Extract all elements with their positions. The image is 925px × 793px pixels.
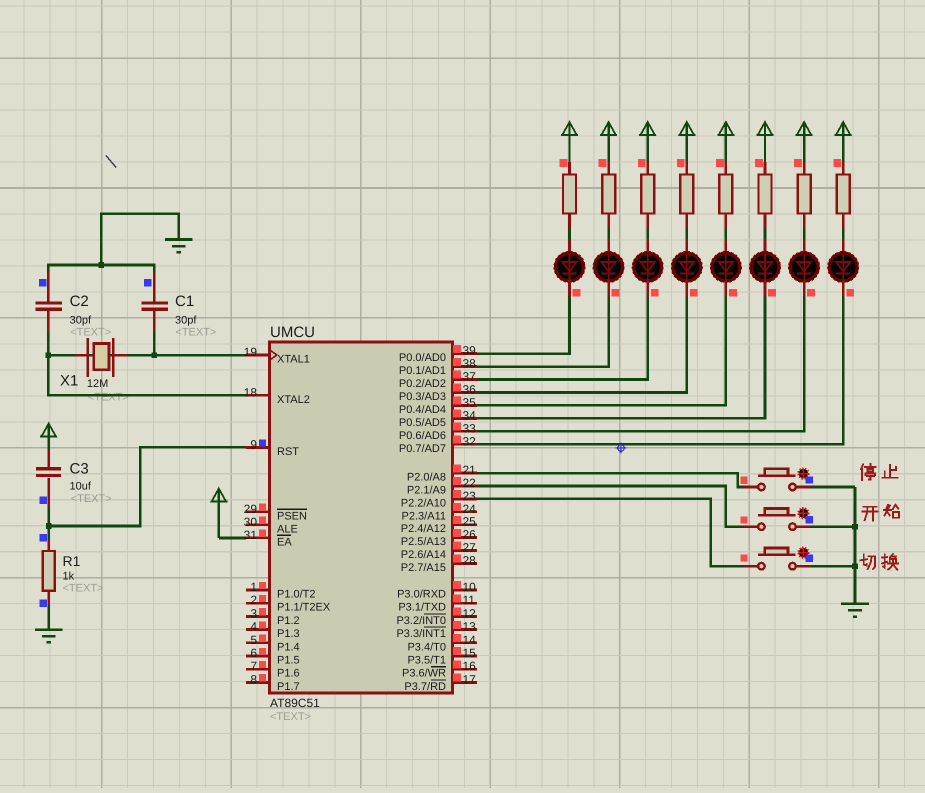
svg-text:X1: X1: [60, 373, 78, 390]
wire P2.1 to button 2: [477, 486, 744, 527]
LED D7: [789, 239, 820, 297]
svg-text:P0.2/AD2: P0.2/AD2: [399, 378, 446, 390]
LED D3 state square: [651, 289, 659, 297]
svg-text:30pf: 30pf: [175, 315, 197, 327]
svg-text:16: 16: [463, 659, 477, 673]
U1 pin 37 P0.2/AD2: [399, 370, 477, 391]
svg-text:5: 5: [250, 633, 257, 647]
wire button1 to GND bus: [811, 486, 856, 489]
push button (stop): [744, 468, 811, 490]
power symbol VCC (LED 3): [639, 122, 656, 162]
svg-text:AT89C51: AT89C51: [270, 696, 320, 710]
origin marker: [616, 443, 627, 454]
wire top node to ground: [101, 214, 179, 265]
crystal X1: [76, 338, 128, 377]
U1 pin 1 P1.0/T2: [246, 580, 316, 601]
svg-text:P3.7/RD: P3.7/RD: [404, 681, 446, 693]
resistor R LED6 state square: [755, 159, 763, 167]
svg-text:26: 26: [463, 528, 477, 542]
svg-text:P3.0/RXD: P3.0/RXD: [397, 589, 446, 601]
U1 pin 17 P3.7/RD: [404, 672, 477, 693]
svg-text:EA: EA: [277, 536, 292, 548]
wire R to LED 8: [842, 229, 845, 241]
svg-text:21: 21: [463, 463, 477, 477]
svg-text:7: 7: [250, 659, 257, 673]
LED D1 state square: [573, 289, 581, 297]
LED D5 state square: [729, 289, 737, 297]
svg-text:34: 34: [463, 408, 477, 422]
button state squares: [740, 477, 747, 484]
label toggle (qie huan): [860, 554, 875, 569]
wire EA: [219, 537, 246, 540]
resistor R LED8 state square: [833, 159, 841, 167]
U1 pin 26 P2.5/A13: [401, 528, 477, 549]
U1 pin 11 P3.1/TXD: [398, 593, 477, 614]
svg-text:<TEXT>: <TEXT>: [88, 392, 129, 404]
wire LED 2 to P0.1: [477, 297, 609, 367]
LED D6 state square: [768, 289, 776, 297]
svg-text:P2.6/A14: P2.6/A14: [401, 549, 446, 561]
svg-text:RST: RST: [277, 446, 299, 458]
svg-text:12M: 12M: [87, 378, 108, 390]
U1 pin 24 P2.3/A11: [402, 502, 477, 523]
resistor R LED2 state square: [599, 159, 607, 167]
wire P2.2 to button 3: [477, 499, 744, 566]
resistor R LED1 state square: [560, 159, 568, 167]
svg-text:PSEN: PSEN: [277, 510, 307, 522]
LED D8 state square: [846, 289, 854, 297]
svg-text:28: 28: [463, 553, 477, 567]
R1 upper state square: [39, 534, 46, 541]
LED D8: [828, 239, 859, 297]
svg-text:35: 35: [463, 395, 477, 409]
U1 pin 12 P3.2/INT0: [396, 606, 477, 627]
U1 pin 36 P0.3/AD3: [399, 382, 477, 403]
button state squares: [740, 516, 747, 523]
LED D2 state square: [612, 289, 620, 297]
ground (top left): [165, 240, 193, 253]
power symbol VCC (LED 5): [717, 122, 734, 162]
wire R to LED 5: [725, 229, 728, 241]
R1 lower state square: [39, 600, 46, 607]
svg-text:33: 33: [463, 421, 477, 435]
resistor R LED3: [641, 162, 654, 229]
svg-text:P0.1/AD1: P0.1/AD1: [399, 365, 446, 377]
junction bus-button2: [852, 524, 858, 530]
U1 pin 7 P1.6: [246, 659, 300, 680]
button state squares: [740, 554, 747, 561]
svg-text:XTAL1: XTAL1: [277, 354, 310, 366]
svg-text:P1.6: P1.6: [277, 668, 300, 680]
svg-text:P3.5/T1: P3.5/T1: [407, 655, 446, 667]
C2 state square: [39, 279, 46, 286]
U1 pin 5 P1.4: [246, 633, 300, 654]
U1 pin 15 P3.5/T1: [407, 646, 477, 667]
svg-text:36: 36: [463, 382, 477, 396]
svg-text:R1: R1: [63, 553, 81, 569]
svg-text:P2.5/A13: P2.5/A13: [401, 536, 446, 548]
power symbol VCC (EA): [210, 489, 227, 539]
svg-text:29: 29: [244, 502, 258, 516]
U1 pin 8 P1.7: [246, 672, 300, 693]
power symbol VCC (LED 7): [796, 122, 813, 162]
svg-text:P2.7/A15: P2.7/A15: [401, 562, 446, 574]
svg-text:P1.2: P1.2: [277, 615, 300, 627]
svg-text:P1.5: P1.5: [277, 655, 300, 667]
svg-text:25: 25: [463, 515, 477, 529]
svg-text:P0.3/AD3: P0.3/AD3: [399, 391, 446, 403]
LED D2: [593, 239, 624, 297]
svg-text:19: 19: [244, 345, 258, 359]
U1 pin 27 P2.6/A14: [401, 541, 477, 562]
U1 pin 10 P3.0/RXD: [397, 580, 477, 601]
U1 pin 9 RST: [246, 438, 299, 459]
U1 pin 19 clock chevron: [271, 351, 277, 360]
svg-text:32: 32: [463, 434, 477, 448]
wire button2 to GND bus: [811, 525, 856, 528]
U1 pin 29 PSEN: [244, 502, 307, 523]
svg-text:C2: C2: [70, 293, 89, 310]
svg-text:1k: 1k: [63, 571, 75, 583]
svg-text:<TEXT>: <TEXT>: [71, 493, 112, 505]
svg-text:P0.5/AD5: P0.5/AD5: [399, 417, 446, 429]
LED D1: [554, 239, 585, 297]
resistor R LED7 state square: [794, 159, 802, 167]
U1 pin 22 P2.1/A9: [407, 476, 477, 497]
U1 pin 6 P1.5: [246, 646, 300, 667]
svg-text:1: 1: [250, 580, 257, 594]
svg-text:P3.3/INT1: P3.3/INT1: [396, 628, 446, 640]
wire R to LED 7: [803, 229, 806, 241]
wire R to LED 2: [607, 229, 610, 241]
svg-text:P1.3: P1.3: [277, 628, 300, 640]
U1 pin 3 P1.2: [246, 606, 300, 627]
svg-text:30pf: 30pf: [70, 315, 92, 327]
svg-text:15: 15: [463, 646, 477, 660]
U1 pin 18 XTAL2: [244, 385, 310, 406]
junction C1-crystal: [151, 352, 157, 358]
capacitor C1: [142, 264, 168, 357]
svg-text:27: 27: [463, 541, 477, 555]
svg-text:P3.1/TXD: P3.1/TXD: [398, 602, 446, 614]
power symbol VCC (LED 6): [757, 122, 774, 162]
svg-text:9: 9: [250, 438, 257, 452]
svg-text:14: 14: [463, 633, 477, 647]
wire LED 5 to P0.4: [477, 297, 726, 406]
svg-text:39: 39: [463, 344, 477, 358]
wire XTAL2 to C2 branch: [48, 355, 246, 395]
svg-text:P0.0/AD0: P0.0/AD0: [399, 352, 446, 364]
svg-text:P1.7: P1.7: [277, 681, 300, 693]
svg-text:30: 30: [244, 515, 258, 529]
svg-text:C1: C1: [175, 293, 194, 310]
U1 pin 34 P0.5/AD5: [399, 408, 477, 429]
LED D4: [671, 239, 702, 297]
LED D5: [710, 239, 741, 297]
svg-text:P3.6/WR: P3.6/WR: [402, 668, 446, 680]
wire C2 top to C1 top: [48, 264, 154, 267]
wire R to LED 6: [764, 229, 767, 241]
junction node top: [98, 262, 104, 268]
U1 pin 32 P0.7/AD7: [399, 434, 477, 455]
power symbol VCC (LED 2): [600, 122, 617, 162]
resistor R LED5: [719, 162, 732, 229]
resistor R LED5 state square: [716, 159, 724, 167]
svg-text:<TEXT>: <TEXT>: [70, 327, 111, 339]
wire button3 to GND bus: [811, 565, 856, 568]
svg-text:10: 10: [463, 580, 477, 594]
svg-text:P2.2/A10: P2.2/A10: [401, 497, 446, 509]
resistor R LED4 state square: [677, 159, 685, 167]
label stop (ting zhi): [861, 464, 876, 480]
junction RST: [46, 523, 52, 529]
C3 state square: [39, 497, 46, 504]
svg-text:P2.4/A12: P2.4/A12: [401, 523, 446, 535]
U1 pin 19 XTAL1: [244, 345, 310, 366]
svg-text:11: 11: [463, 593, 476, 607]
U1 pin 30 ALE: [244, 515, 298, 536]
svg-text:4: 4: [250, 620, 257, 634]
wire R to LED 1: [568, 229, 571, 241]
junction C2-crystal: [46, 352, 52, 358]
U1 pin 2 P1.1/T2EX: [246, 593, 331, 614]
svg-text:8: 8: [250, 672, 257, 686]
U1 pin 35 P0.4/AD4: [399, 395, 477, 416]
wire LED 7 to P0.6: [477, 297, 804, 432]
svg-text:18: 18: [244, 385, 258, 399]
svg-text:P1.0/T2: P1.0/T2: [277, 589, 316, 601]
svg-text:17: 17: [463, 672, 477, 686]
svg-text:<TEXT>: <TEXT>: [175, 327, 216, 339]
resistor R LED6: [759, 162, 772, 229]
resistor R1: [43, 540, 55, 606]
power symbol VCC (LED 8): [835, 122, 852, 162]
U1 pin 39 P0.0/AD0: [399, 344, 477, 365]
resistor R LED8: [837, 162, 850, 229]
svg-text:31: 31: [244, 528, 258, 542]
U1 pin 23 P2.2/A10: [401, 489, 477, 510]
svg-text:3: 3: [250, 606, 257, 620]
U1 pin 31 EA: [244, 528, 293, 549]
resistor R LED1: [563, 162, 576, 229]
svg-text:<TEXT>: <TEXT>: [63, 583, 104, 595]
svg-text:ALE: ALE: [277, 523, 298, 535]
C1 state square: [144, 279, 151, 286]
stray cursor mark: [106, 155, 116, 167]
wire LED 3 to P0.2: [477, 297, 648, 380]
U1 pin 38 P0.1/AD1: [399, 357, 477, 378]
wire R to LED 4: [685, 229, 688, 241]
wire RST net: [49, 447, 246, 526]
GND bus wire: [854, 487, 857, 605]
U1 pin 33 P0.6/AD6: [399, 421, 477, 442]
wire LED 4 to P0.3: [477, 297, 687, 393]
LED D6: [750, 239, 781, 297]
svg-text:22: 22: [463, 476, 477, 490]
svg-text:6: 6: [250, 646, 257, 660]
LED D3: [632, 239, 663, 297]
U1 pin 28 P2.7/A15: [401, 553, 477, 574]
LED D4 state square: [690, 289, 698, 297]
junction bus-button3: [852, 563, 858, 569]
U1 pin 21 P2.0/A8: [407, 463, 477, 484]
wire P2.0 to button 1: [477, 473, 744, 487]
U1 pin 14 P3.4/T0: [407, 633, 477, 654]
wire LED 8 to P0.7: [477, 297, 843, 445]
svg-text:P2.1/A9: P2.1/A9: [407, 485, 446, 497]
svg-text:13: 13: [463, 620, 477, 634]
resistor R LED7: [798, 162, 811, 229]
svg-text:24: 24: [463, 502, 477, 516]
svg-text:P0.6/AD6: P0.6/AD6: [399, 430, 446, 442]
svg-text:P1.4: P1.4: [277, 641, 300, 653]
svg-text:23: 23: [463, 489, 477, 503]
svg-text:P2.3/A11: P2.3/A11: [402, 510, 446, 522]
ground (buttons): [841, 604, 869, 617]
resistor R LED3 state square: [638, 159, 646, 167]
svg-text:C3: C3: [70, 461, 89, 478]
push button (toggle): [744, 547, 811, 569]
wire R to LED 3: [646, 229, 649, 241]
label start (kai shi): [862, 507, 877, 521]
svg-text:<TEXT>: <TEXT>: [270, 711, 311, 723]
push button (start): [744, 508, 811, 530]
power symbol VCC (LED 4): [678, 122, 695, 162]
svg-text:XTAL2: XTAL2: [277, 394, 310, 406]
U1 pin 25 P2.4/A12: [401, 515, 477, 536]
svg-text:P0.4/AD4: P0.4/AD4: [399, 404, 446, 416]
svg-text:10uf: 10uf: [70, 481, 92, 493]
svg-text:P0.7/AD7: P0.7/AD7: [399, 443, 446, 455]
U1 pin 4 P1.3: [246, 620, 300, 641]
svg-text:P3.4/T0: P3.4/T0: [407, 641, 446, 653]
ground (R1): [35, 630, 63, 643]
svg-text:2: 2: [250, 593, 257, 607]
LED D7 state square: [807, 289, 815, 297]
wire LED 1 to P0.0: [477, 297, 570, 354]
U1 pin 16 P3.6/WR: [402, 659, 477, 680]
power symbol VCC (LED 1): [561, 122, 578, 162]
power symbol VCC (reset): [40, 424, 57, 456]
svg-text:38: 38: [463, 357, 477, 371]
resistor R LED2: [602, 162, 615, 229]
MCU U1 AT89C51 body: [270, 342, 453, 693]
resistor R LED4: [680, 162, 693, 229]
svg-text:37: 37: [463, 370, 477, 384]
capacitor C2: [36, 264, 62, 357]
wire crystal row: [48, 354, 246, 357]
svg-text:P3.2/INT0: P3.2/INT0: [396, 615, 446, 627]
wire junction to R1: [47, 526, 50, 551]
svg-text:12: 12: [463, 606, 477, 620]
svg-text:P1.1/T2EX: P1.1/T2EX: [277, 602, 331, 614]
U1 pin 13 P3.3/INT1: [396, 620, 477, 641]
svg-text:P2.0/A8: P2.0/A8: [407, 472, 446, 484]
svg-text:UMCU: UMCU: [270, 324, 315, 341]
capacitor C3: [36, 450, 61, 526]
wire LED 6 to P0.5: [477, 297, 765, 419]
wire R1 to ground: [47, 606, 50, 631]
